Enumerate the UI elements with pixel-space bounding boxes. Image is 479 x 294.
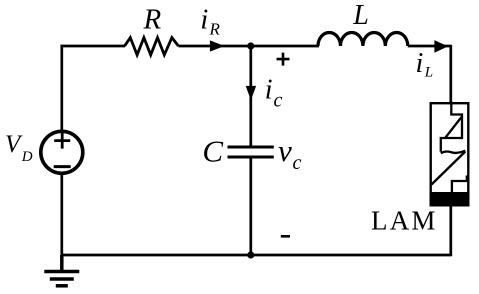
svg-text:L: L xyxy=(352,0,369,31)
wire: left vertical upper (source to top wire) xyxy=(60,45,63,131)
lamp LAM: interior triangle diagonal xyxy=(446,117,462,138)
svg-text:i: i xyxy=(200,4,208,36)
wire: inductor to right corner xyxy=(408,45,451,48)
lamp LAM: box outline xyxy=(431,103,469,205)
resistor R xyxy=(125,38,179,55)
svg-text:c: c xyxy=(293,152,302,174)
wire: left vertical lower (source to bottom wire) xyxy=(60,173,63,256)
wire: bottom horizontal xyxy=(62,254,451,257)
lamp LAM: interior bottom step xyxy=(452,176,467,194)
ground xyxy=(44,255,79,286)
current arrow i_L xyxy=(434,40,448,53)
svg-text:LAM: LAM xyxy=(371,206,438,236)
voltage source - xyxy=(54,165,71,168)
svg-text:D: D xyxy=(21,149,33,165)
wire: capacitor branch lower xyxy=(249,157,252,255)
wire: top-left horizontal from source branch to resistor xyxy=(61,45,125,48)
wire: capacitor branch upper xyxy=(249,46,252,147)
lamp LAM: interior wavy line xyxy=(441,151,466,154)
voltage source + xyxy=(54,133,70,149)
voltage source VD circle xyxy=(41,131,83,173)
lamp LAM: bottom electrode bar (filled) xyxy=(430,192,470,207)
wire: right vertical upper (corner to LAM box) xyxy=(449,45,452,104)
node: bottom junction dot xyxy=(247,251,254,258)
svg-text:C: C xyxy=(202,133,223,168)
capacitor C plates xyxy=(228,147,274,157)
wire: node to inductor xyxy=(251,45,319,48)
svg-text:i: i xyxy=(416,48,424,79)
wire: right vertical lower (LAM to bottom wire) xyxy=(449,205,452,256)
lamp LAM: interior long diagonal (arc) xyxy=(432,152,466,185)
svg-text:R: R xyxy=(209,19,221,38)
svg-text:v: v xyxy=(278,133,292,168)
svg-text:R: R xyxy=(143,4,162,36)
node: top junction dot xyxy=(247,42,254,49)
inductor L (4 humps) xyxy=(318,32,408,46)
label + (capacitor top polarity) xyxy=(277,53,290,66)
svg-text:L: L xyxy=(424,65,433,81)
lamp LAM: interior top stub xyxy=(441,103,462,152)
wire: resistor to capacitor node xyxy=(178,45,250,48)
label - (capacitor bottom polarity) xyxy=(281,235,290,238)
current arrow i_R xyxy=(210,40,225,51)
svg-text:c: c xyxy=(274,90,283,112)
svg-text:i: i xyxy=(265,75,273,106)
current arrow i_c xyxy=(246,86,256,100)
